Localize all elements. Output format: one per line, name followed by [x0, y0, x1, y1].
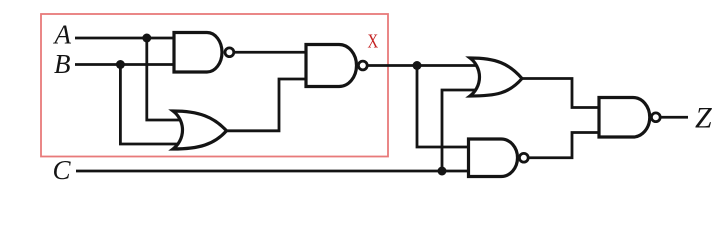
svg-text:A: A — [53, 20, 72, 50]
wire B branch to OR G2 — [120, 65, 181, 145]
junction dot on B line — [116, 60, 125, 69]
NAND gate G3 (output X) — [306, 45, 357, 87]
wire NAND G6 output to Z — [656, 116, 688, 119]
junction dot on X node — [413, 61, 422, 70]
OR gate G2 (inputs A,B branches) — [173, 111, 227, 149]
OR gate G4 (inputs X,C) — [470, 58, 522, 96]
wire A input — [75, 37, 178, 40]
NAND gate G3 output bubble — [358, 61, 367, 70]
wire X node: NAND G3 output to OR G4 — [363, 64, 478, 67]
NAND gate G1 output bubble — [225, 48, 234, 57]
svg-text:Z: Z — [695, 102, 712, 135]
junction dot on A line — [142, 34, 151, 43]
NAND gate G1 (inputs A,B) — [174, 33, 222, 73]
wire OR G2 output to NAND G3 — [225, 79, 310, 131]
wire C branch up to OR G4 — [442, 90, 478, 171]
wire B input — [75, 63, 178, 66]
NAND gate G6 output bubble — [651, 113, 660, 122]
junction dot on C line — [438, 167, 447, 176]
NAND gate G5 (inputs X,C) — [469, 139, 518, 177]
svg-text:B: B — [54, 49, 71, 79]
red feedback region box — [41, 14, 388, 157]
wire C input — [76, 170, 472, 173]
svg-text:X: X — [368, 29, 379, 52]
NAND gate G6 (final, output Z) — [599, 98, 650, 138]
wire OR G4 output to NAND G6 — [521, 79, 602, 108]
wire NAND G5 output to NAND G6 — [524, 133, 602, 158]
svg-text:C: C — [53, 155, 72, 185]
wire NAND G1 output to NAND G3 — [229, 51, 310, 54]
wire A branch to OR G2 — [147, 38, 181, 120]
NAND gate G5 output bubble — [519, 153, 528, 162]
wire X branch down to NAND G5 — [417, 66, 472, 148]
